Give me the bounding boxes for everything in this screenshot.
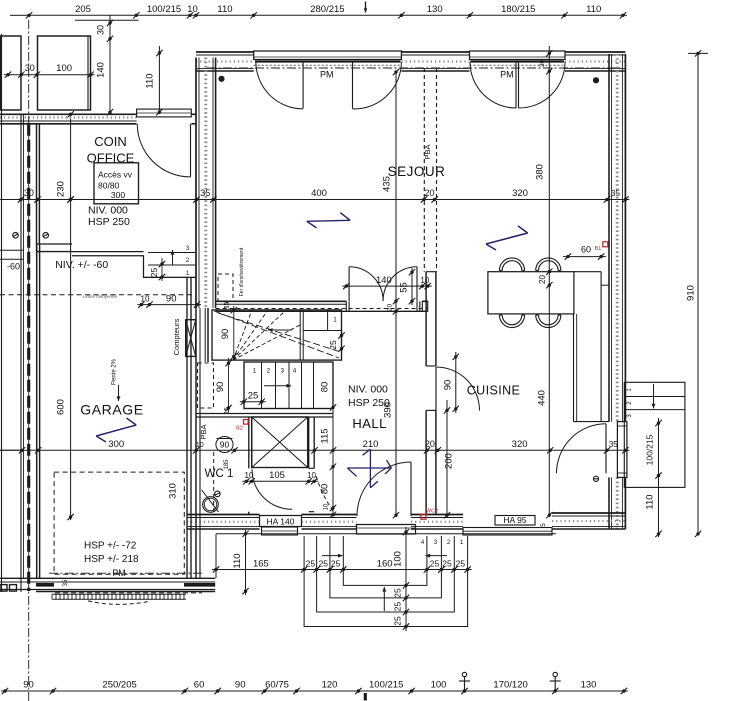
label PM north door 1 [320,70,334,80]
door leaf french door 2 left [515,62,517,109]
svg-text:10: 10 [141,295,150,304]
svg-text:130: 130 [581,680,597,691]
svg-text:80: 80 [319,382,330,393]
south wall segment 4 [552,513,625,529]
limite dashed line [0,294,196,299]
svg-text:30: 30 [96,25,106,35]
front door leaf [410,462,412,516]
label 310 garage [167,483,178,499]
PBA dashed beam lines sejour [423,68,437,272]
label 185 wc [224,459,230,470]
svg-text:25: 25 [319,558,329,568]
lower stair flight box [244,362,333,409]
wc lobby south walls [249,512,314,515]
wall hall-cuisine upper [426,272,436,366]
label PBA wc [199,424,208,439]
dimension 200 (x=447) [444,400,455,518]
lower stair treads [262,362,314,409]
shaft east wall [309,417,315,468]
electric symbol cuisine (navy) [486,226,528,250]
svg-text:90: 90 [220,440,230,450]
south wall segment 3 [411,515,463,530]
svg-text:10: 10 [307,471,316,480]
svg-text:100/215: 100/215 [645,434,655,465]
dimension 90 lower stair left [215,358,232,412]
label Compteurs [172,318,181,355]
svg-text:380: 380 [535,164,546,180]
label COIN OFFICE [87,134,135,166]
svg-text:90: 90 [235,680,246,691]
kitchen ext door leaf [605,424,607,474]
svg-text:B2: B2 [236,426,243,432]
door leaf interior double left [348,267,350,301]
west wall wc section [196,362,200,578]
garage east wall [187,277,191,578]
svg-text:205: 205 [75,4,91,15]
window HA 140 frame [262,527,298,535]
annex steps treads [144,246,197,277]
label NIV. 000 / HSP 250 annex [88,204,130,228]
svg-text:310: 310 [167,483,178,499]
front steps arrows [322,554,447,611]
electric symbol garage (navy) [96,418,136,442]
svg-text:60/75: 60/75 [265,680,289,691]
wall stub east of double door [422,301,427,311]
window frame french door 1 [254,51,402,62]
svg-text:HA 95: HA 95 [503,515,526,525]
dimension axis lower (300 | 90 | 210 | 20 | 320 | 35) [0,439,629,454]
svg-text:25: 25 [328,340,338,350]
svg-text:300: 300 [108,439,124,450]
label NIV. 000 / HSP 250 hall [348,384,390,409]
mark B2 red [236,420,248,432]
svg-text:90: 90 [215,382,226,393]
window HA 95 label box [495,515,535,525]
wc sink circle [202,490,219,512]
door swing arc cuisine [436,367,480,411]
svg-text:HA 140: HA 140 [267,516,295,526]
svg-text:HSP 250: HSP 250 [88,216,130,228]
wall sejour-hall [216,301,428,311]
junction dot sejour NE [593,77,599,83]
dimension 25 lower stair [240,391,266,405]
garage door slat band [52,594,186,599]
label SEJOUR [388,164,446,179]
dimension chain top (205 | 100/215 | 10 | 110 | 280/215 | 130 | 180/215 | 110) [10,2,627,19]
svg-text:55: 55 [399,282,410,293]
party wall thick dashed [27,124,30,591]
annex south wall [37,244,73,252]
dimension 10 | 105 | 10 (WC door) [242,470,318,484]
svg-text:100: 100 [56,63,72,74]
door leaf french door 1 left [302,62,304,109]
garage south wall [0,578,215,593]
svg-text:PBA: PBA [199,424,208,439]
svg-text:320: 320 [512,439,528,450]
svg-text:200: 200 [444,453,455,469]
neighbour strip vertical walls [2,34,40,592]
dimension 115 / 80 / 10 (x=333) [319,403,336,518]
chair bottom-right [536,315,561,328]
mark B1 red [595,242,608,252]
hidden leaf dashes across north openings [254,64,565,66]
winder number 1 [333,318,337,324]
svg-text:90: 90 [220,329,231,340]
meter box [186,320,196,357]
wc door leaf line [252,468,292,470]
window HA 140 label box [260,516,302,527]
svg-text:25: 25 [149,268,159,278]
dimension 55 interior door [399,268,416,305]
axis dash-dot line north wall [207,67,620,69]
chair top-left [499,258,524,271]
svg-text:210: 210 [363,439,379,450]
svg-text:140: 140 [376,275,392,286]
annex entry door leaf [190,124,192,177]
svg-text:WC2: WC2 [426,509,438,515]
tiny 15 label [225,302,231,309]
dimension 140 | 10 interior door [342,275,431,289]
dimension 100 | 25x3 front steps vertical [392,527,409,631]
annex north wall [0,114,196,124]
dimension 30 / 380 / 20 / 440 (x=549.3) [535,46,553,518]
door swing arc french door 2 left [470,62,516,108]
front door frame [357,525,416,535]
svg-text:25: 25 [331,558,341,568]
svg-text:280/215: 280/215 [310,4,344,15]
label PM north door 2 [500,70,514,80]
svg-text:35: 35 [63,579,69,586]
dining table [488,272,574,314]
wc door swing arc [252,469,292,509]
svg-text:185: 185 [224,459,230,470]
svg-text:250/205: 250/205 [102,680,136,691]
svg-text:300: 300 [111,190,125,200]
svg-text:25: 25 [392,616,402,626]
dimension 230 / 600 left (x=70.6) [56,111,74,520]
interior double door frame [346,301,420,311]
east exterior wall upper [609,54,625,422]
svg-text:20: 20 [424,188,434,198]
front entrance steps nested rectangles [304,536,468,627]
garage door dashed arc [88,601,148,604]
under-stair dashed [198,363,214,408]
svg-text:Fer d'enchevêtrement: Fer d'enchevêtrement [239,247,245,296]
svg-text:80: 80 [319,484,330,495]
winder stair arrow [268,328,292,332]
front door swing arc [357,462,411,516]
door leaf interior double right [416,267,418,301]
label 80 stairs [319,382,330,393]
dimension chain bottom (90 | 250/205 | 60 | 90 | 60/75 | 120 | 100/215 | 100 | 170/120 | 130) [1,672,628,700]
top-left boundary line [75,19,139,21]
garage piers [0,585,17,592]
svg-text:60: 60 [194,680,205,691]
storage box 1 [1,36,22,110]
label GARAGE [80,402,144,418]
kitchen counter [574,272,610,422]
dimension 30 | 100 storage boxes [4,63,95,78]
north exterior wall segment left [196,52,254,71]
svg-text:230: 230 [56,181,67,197]
storage box 2 [38,36,91,110]
svg-text:165: 165 [253,558,269,569]
pente 2% slope arrow [112,358,121,401]
hall-wc dashed door arc [316,476,333,511]
dimension 165 | 25x3 | 160 | 25x3 front steps [212,558,472,572]
junction dot sejour NW [218,76,224,82]
lower stair arrow [264,384,291,388]
svg-text:60: 60 [581,245,591,255]
door leaf french door 1 right [352,62,354,109]
front steps step numbers [421,540,464,546]
svg-text:10: 10 [187,4,198,15]
svg-text:25: 25 [306,558,316,568]
winder stair treads [214,310,342,360]
wc door leaf [251,469,253,509]
svg-text:100/215: 100/215 [147,4,181,15]
door leaf french door 2 right [518,62,520,109]
chair top-right [536,258,561,271]
door swing arc interior double left [349,267,383,301]
dimension 25 winder [328,330,345,353]
svg-text:CUISINE: CUISINE [467,384,521,398]
dimension 60 kitchen [563,245,606,260]
svg-text:PBA: PBA [423,144,432,159]
wc circle-dot [215,491,221,497]
toilet [216,437,233,453]
dimension axis upper (30 | 230 | 35 | 400 | 20 | 320 | 35) [0,188,629,203]
garage dashed clearance rect [54,472,184,574]
svg-text:PM: PM [112,568,126,578]
svg-text:10: 10 [420,276,429,285]
svg-text:25: 25 [456,558,466,568]
svg-text:PM: PM [320,70,334,80]
svg-text:110: 110 [217,4,232,15]
electric symbol sejour (navy) [307,213,350,228]
dimension 90 (x=455.8) [442,352,459,413]
east exterior wall lower [609,477,625,529]
label NIV +/- -60 [55,259,108,271]
garage PM dash-dot line [49,568,202,578]
winder stair box [212,310,342,360]
svg-text:140: 140 [96,62,107,78]
svg-text:B1: B1 [595,246,602,252]
svg-text:400: 400 [311,188,327,199]
door swing arc interior double right [383,267,417,301]
north exterior wall segment middle [401,52,469,71]
dimension 10 | 90 annex [137,294,201,308]
label HALL [352,416,387,431]
svg-text:160: 160 [377,558,393,569]
svg-text:110: 110 [586,4,601,15]
wall hall-cuisine lower [426,410,436,514]
dimension 100/215 | 110 side steps [645,418,662,537]
svg-text:NIV. 000: NIV. 000 [348,384,388,396]
svg-text:25: 25 [430,558,440,568]
annex entry door swing arc [137,124,190,177]
svg-text:90: 90 [442,380,453,391]
svg-text:15: 15 [225,301,231,308]
dimension 25 annex steps [149,258,165,281]
south wall segment 2 [302,515,357,530]
acces box [94,163,139,204]
svg-text:110: 110 [645,494,656,509]
label -60 left strip [7,262,20,272]
electric symbol hall cross (navy) [347,449,391,488]
annex west wall [37,124,40,244]
dimension 90 winder left [220,306,237,360]
svg-text:120: 120 [322,680,338,691]
front steps porch edge line [216,534,556,578]
dimension 30 / 140 (x=110) [96,15,114,115]
window frame french door 2 [470,51,566,62]
dimension 910 right side [686,50,709,537]
door swing arc french door 1 left [256,62,303,109]
svg-text:PM: PM [500,70,514,80]
annex floor step edge [72,252,196,278]
annex entry door frame [137,109,192,117]
svg-text:Accès vv: Accès vv [98,170,133,180]
svg-text:100: 100 [431,680,447,691]
axis dash-dot left [28,20,30,701]
svg-text:NIV. +/- -60: NIV. +/- -60 [55,259,108,271]
label WC 1 [205,468,234,480]
svg-text:NIV. 000: NIV. 000 [88,204,128,216]
svg-text:25: 25 [248,391,259,402]
kitchen ext door frame [617,422,627,478]
door handle symbol kitchen [593,476,598,481]
fer denchevetrement dashed box [218,247,245,301]
svg-text:HALL: HALL [352,416,387,431]
label CUISINE [467,384,521,398]
dimension 110 (x=159.4) [145,46,163,115]
door swing arc french door 2 right [519,62,566,108]
svg-text:100: 100 [392,551,403,567]
svg-text:320: 320 [512,188,528,199]
svg-text:HSP +/- 218: HSP +/- 218 [84,554,139,565]
stair bottom wall [196,414,333,418]
wc east wall upper [249,417,252,468]
svg-text:180/215: 180/215 [501,4,535,15]
wc pba dashed line [213,452,215,512]
dimension 435 / 390 (x=396) [382,69,400,519]
svg-text:170/120: 170/120 [493,680,527,691]
svg-text:20: 20 [387,304,394,312]
svg-text:115: 115 [319,428,330,443]
stair numbers 1-4 [253,369,297,375]
mark WC2 red [421,509,438,520]
svg-text:15: 15 [225,407,231,414]
svg-text:25: 25 [392,588,402,598]
north exterior wall segment right [565,52,625,71]
svg-text:HSP +/- -72: HSP +/- -72 [84,541,137,552]
circle-dot symbols [13,233,49,239]
label 15 top stairs [225,301,231,414]
svg-text:100/215: 100/215 [369,680,403,691]
dimension 110 porch [232,530,249,595]
svg-text:110: 110 [232,553,243,568]
svg-text:20: 20 [538,275,547,284]
svg-text:130: 130 [427,4,443,15]
door swing arc french door 1 right [353,62,402,109]
svg-text:25: 25 [392,602,402,612]
window HA 95 frame [463,523,552,535]
svg-text:COIN: COIN [94,134,127,149]
side steps east [624,382,685,487]
svg-text:110: 110 [145,73,156,88]
shaft box [252,417,308,468]
svg-text:Pente 2%: Pente 2% [112,358,118,385]
svg-text:25: 25 [442,558,452,568]
svg-text:600: 600 [56,399,67,415]
label HSP garage [84,541,139,565]
kitchen ext door swing arc [557,424,607,474]
svg-text:HSP 250: HSP 250 [348,397,390,409]
chair bottom-left [499,315,524,328]
south wall garage-to-halldoor segment 1 [187,515,260,530]
svg-text:-60: -60 [7,262,20,272]
svg-text:Compteurs: Compteurs [172,318,181,355]
west wall stairs section [196,308,208,362]
svg-text:105: 105 [269,470,285,481]
svg-text:GARAGE: GARAGE [80,402,144,418]
west exterior wall [196,58,216,309]
svg-text:30: 30 [25,63,35,73]
svg-text:440: 440 [536,390,547,406]
door leaf cuisine [435,367,437,411]
neighbour strip lines [0,250,24,450]
svg-text:910: 910 [686,285,697,301]
svg-text:Limite mitoyenne: Limite mitoyenne [83,294,118,299]
